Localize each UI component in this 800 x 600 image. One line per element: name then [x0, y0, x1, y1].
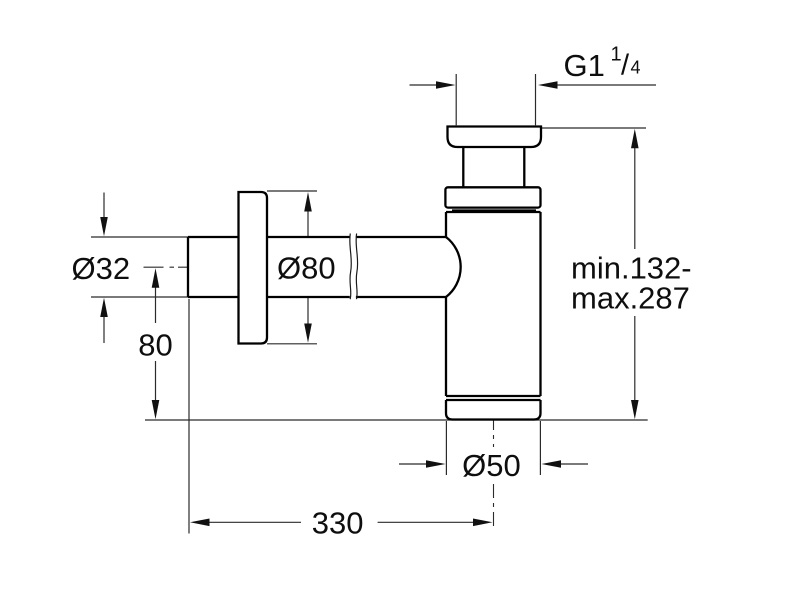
dimension Ø80 lower arrow	[307, 286, 309, 325]
trap body left edge upper	[445, 212, 447, 237]
dimension G1 1/4 left arrow	[410, 84, 438, 86]
dimension min.132-max.287 lower arrow	[634, 316, 636, 401]
wire: wall plane extension line x=189	[188, 299, 190, 534]
dimension min.132-max.287 upper arrow	[634, 148, 636, 250]
trap body white fill	[446, 212, 541, 396]
trap neck right edge	[523, 147, 525, 187]
dimension 330 right arrow	[378, 521, 474, 523]
svg-text:Ø50: Ø50	[462, 448, 521, 483]
trap bottom cup top edge	[446, 399, 541, 401]
trap body bottom edge	[446, 395, 541, 397]
dimension 330 left arrow	[209, 521, 301, 523]
dimension Ø32 upper arrow	[103, 193, 105, 219]
wire: G1 left extension line	[455, 74, 457, 125]
wire: Ø50 left extension line	[445, 421, 447, 475]
svg-text:max.287: max.287	[571, 281, 690, 316]
wire: Ø80 bottom extension line	[267, 343, 317, 345]
pipe break wavy line right	[356, 234, 358, 300]
node: pipe centerline (dash-dot)	[144, 266, 190, 268]
wire: Ø32 bottom extension line	[91, 296, 188, 298]
dimension Ø50 right arrow	[561, 463, 589, 465]
pipe joint bulge arc	[446, 237, 461, 297]
svg-text:330: 330	[312, 506, 364, 541]
dimension Ø80 upper arrow	[307, 211, 309, 248]
pipe: horizontal Ø32 tube white fill	[188, 237, 446, 297]
trap neck left edge	[462, 147, 464, 187]
trap bottom cup outline	[446, 400, 541, 420]
wire: Ø50 right extension line	[539, 421, 541, 475]
pipe: bottom edge right of break	[356, 296, 446, 298]
node: body centerline lower (dash-dot)	[493, 484, 495, 531]
wall flange disc Ø80	[239, 192, 268, 344]
pipe: top edge right of break	[356, 236, 446, 238]
trap flange seam line	[452, 209, 536, 211]
svg-text:G1: G1	[564, 48, 605, 83]
label G1 1/4	[564, 44, 641, 84]
trap mid flange nut	[445, 187, 540, 207]
pipe: bottom edge left of break	[188, 296, 350, 298]
svg-text:Ø80: Ø80	[277, 251, 336, 286]
svg-text:/: /	[621, 50, 630, 82]
dimension 80 lower arrow	[155, 361, 157, 401]
node: body centerline upper (dash-dot)	[493, 420, 495, 447]
svg-text:1: 1	[611, 44, 622, 66]
wire: Ø32 top extension line	[91, 236, 188, 238]
dimension Ø32 lower arrow	[103, 317, 105, 344]
wire: Ø80 top extension line	[267, 190, 317, 192]
trap body top edge	[446, 211, 541, 213]
svg-text:80: 80	[138, 327, 172, 362]
wire: G1 right extension line	[535, 74, 537, 125]
trap body right edge	[539, 212, 541, 396]
trap body left edge lower	[445, 297, 447, 396]
dimension Ø50 left arrow	[399, 463, 427, 465]
pipe: top edge left of break	[188, 236, 350, 238]
dimension 80 upper arrow	[155, 287, 157, 323]
wire: bottom reference extension line y=420	[145, 419, 648, 421]
trap top inlet flange	[448, 127, 542, 148]
wire: flange top extension line	[542, 127, 646, 129]
dimension G1 1/4 right arrow	[557, 84, 657, 86]
pipe: open left end	[187, 237, 189, 297]
svg-text:4: 4	[631, 58, 641, 78]
pipe break wavy line left	[350, 234, 352, 300]
svg-text:Ø32: Ø32	[71, 251, 130, 286]
